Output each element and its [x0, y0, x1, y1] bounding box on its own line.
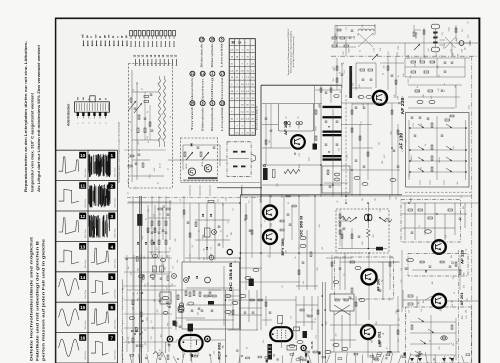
svg-text:10k: 10k — [437, 66, 439, 69]
test point circles center — [209, 230, 216, 260]
svg-text:0,1: 0,1 — [461, 195, 463, 197]
svg-text:10n: 10n — [203, 248, 205, 251]
svg-text:22: 22 — [129, 175, 131, 177]
oscillogram tag 16 — [79, 334, 86, 341]
svg-text:C7: C7 — [212, 260, 214, 262]
svg-text:1k: 1k — [425, 144, 427, 146]
sync block box top edge — [240, 194, 402, 196]
svg-text:2,2k: 2,2k — [354, 36, 356, 39]
svg-text:0,1: 0,1 — [421, 309, 423, 311]
svg-text:470: 470 — [145, 343, 147, 346]
zigzag resistor — [284, 169, 300, 173]
coil crossover wires — [358, 33, 373, 47]
svg-text:47n: 47n — [418, 301, 420, 304]
svg-text:5n: 5n — [267, 255, 269, 257]
wire junction dots — [225, 164, 370, 311]
transistor T3 (AF 106) — [291, 135, 305, 149]
svg-text:68: 68 — [337, 201, 339, 203]
svg-text:22k: 22k — [222, 203, 224, 206]
svg-text:50Hz 2Vss: 50Hz 2Vss — [85, 229, 87, 238]
svg-text:C9: C9 — [164, 134, 166, 136]
svg-text:—: — — [244, 42, 247, 45]
svg-text:680: 680 — [154, 269, 156, 272]
svg-text:47k: 47k — [462, 29, 464, 32]
svg-text:1k: 1k — [133, 89, 135, 91]
svg-text:perten müssen auf jeden Fall u: perten müssen auf jeden Fall und in glei… — [42, 239, 46, 361]
svg-text:4,7k: 4,7k — [359, 84, 361, 87]
svg-text:BA114: BA114 — [410, 155, 413, 160]
svg-text:4,7k: 4,7k — [438, 88, 440, 91]
svg-text:0,5: 0,5 — [148, 230, 150, 233]
svg-text:C45: C45 — [319, 224, 321, 227]
svg-text:4,7k: 4,7k — [144, 284, 146, 287]
svg-text:AF106: AF106 — [201, 161, 204, 166]
svg-text:C61: C61 — [344, 70, 346, 73]
svg-text:15: 15 — [200, 38, 204, 42]
svg-text:17: 17 — [220, 72, 224, 76]
svg-text:680: 680 — [144, 256, 146, 259]
svg-text:+12V: +12V — [154, 167, 156, 172]
svg-text:L2: L2 — [158, 83, 160, 85]
top-right extra wiring — [332, 25, 457, 108]
test point 17 with label — [220, 71, 225, 102]
test point 14 with label — [200, 71, 205, 102]
svg-text:R97: R97 — [370, 338, 372, 341]
IF transformer core bar 5 — [323, 155, 342, 157]
svg-text:0,5: 0,5 — [218, 199, 220, 202]
test point 21 with label — [190, 71, 195, 102]
additional junction dots — [240, 147, 438, 353]
svg-text:0,22: 0,22 — [299, 153, 301, 157]
ratio detector diodes — [338, 203, 392, 250]
svg-text:100: 100 — [463, 206, 465, 209]
tuner tiny labels (texture) — [128, 82, 172, 194]
svg-text:1k: 1k — [315, 318, 317, 320]
svg-text:2k2: 2k2 — [335, 34, 337, 37]
svg-text:C311: C311 — [449, 27, 451, 31]
tuner RF circuit components — [128, 70, 164, 182]
svg-text:47n: 47n — [439, 308, 441, 311]
svg-text:C96: C96 — [373, 234, 375, 237]
svg-text:2k2: 2k2 — [142, 331, 144, 334]
wire tuner-out — [168, 159, 228, 161]
svg-text:rt: rt — [104, 98, 107, 100]
AGC upper dash-dot box — [401, 200, 461, 243]
svg-text:5: 5 — [111, 275, 114, 280]
oscillogram tag 14 — [79, 273, 86, 280]
svg-text:5n: 5n — [417, 90, 419, 92]
svg-text:220: 220 — [353, 83, 355, 86]
svg-text:50Hz 2Vss: 50Hz 2Vss — [85, 168, 87, 177]
svg-text:1k: 1k — [417, 86, 419, 88]
black component right of AF106 — [313, 144, 318, 150]
oscillogram tag 5 — [108, 273, 115, 280]
svg-text:C88: C88 — [452, 53, 454, 56]
svg-text:1n: 1n — [146, 218, 148, 220]
svg-text:7: 7 — [111, 336, 114, 341]
svg-text:4,7k: 4,7k — [307, 314, 309, 317]
svg-text:11: 11 — [80, 184, 85, 189]
svg-text:PL 36: PL 36 — [310, 341, 314, 348]
svg-text:AF 200: AF 200 — [377, 278, 381, 291]
capacitor pair C9 — [296, 116, 302, 124]
oscillogram tag 2 — [108, 182, 115, 189]
left center lower parts — [150, 266, 188, 286]
svg-text:AF106: AF106 — [185, 163, 188, 168]
border frame top — [55, 17, 480, 19]
svg-text:Als Lötgut darf nur Lötzinn mi: Als Lötgut darf nur Lötzinn mit mindeste… — [37, 45, 41, 192]
svg-text:5n: 5n — [444, 83, 446, 85]
test point 13 with label — [220, 101, 225, 132]
svg-text:4,7: 4,7 — [160, 163, 162, 165]
svg-text:5n6: 5n6 — [455, 85, 457, 88]
svg-text:R12: R12 — [241, 297, 243, 300]
oscillogram tag 4 — [108, 243, 115, 250]
sound IF box — [322, 166, 350, 193]
svg-text:5n: 5n — [298, 247, 300, 249]
svg-text:15kHz 8Vss: 15kHz 8Vss — [115, 320, 117, 330]
svg-text:680: 680 — [389, 297, 391, 300]
svg-text:Spannungsangaben und Oszillogr: Spannungsangaben und Oszillogramme gelte… — [118, 121, 121, 183]
svg-text:1k: 1k — [274, 219, 276, 221]
svg-text:13: 13 — [220, 101, 224, 105]
svg-text:C45: C45 — [190, 326, 192, 329]
test point 5 with label — [219, 37, 224, 68]
svg-text:1n: 1n — [170, 116, 172, 118]
oscillator stage components — [176, 290, 221, 330]
svg-text:1n: 1n — [142, 88, 144, 90]
test point 8 with label — [200, 101, 205, 132]
svg-text:R71: R71 — [142, 344, 144, 347]
svg-text:br: br — [112, 35, 115, 38]
svg-text:R216: R216 — [299, 124, 301, 128]
svg-text:18: 18 — [210, 38, 214, 42]
svg-text:5n6: 5n6 — [406, 139, 408, 142]
svg-text:R216: R216 — [390, 195, 392, 199]
svg-text:680: 680 — [466, 310, 468, 313]
test point 9 with label — [210, 101, 215, 132]
video detector diode rows — [410, 315, 456, 363]
svg-text:C41: C41 — [413, 123, 415, 126]
svg-text:C45: C45 — [406, 315, 408, 318]
svg-text:10k: 10k — [374, 198, 376, 201]
svg-text:10k: 10k — [435, 33, 437, 36]
IF transformer core bar 4 — [323, 134, 342, 136]
svg-text:0,5: 0,5 — [192, 245, 194, 248]
svg-text:15: 15 — [80, 305, 86, 310]
AF201 stage wiring — [305, 311, 400, 358]
svg-text:DC 354 B: DC 354 B — [229, 262, 233, 291]
oscillogram 6 waveform — [91, 309, 109, 325]
bus wire vertical B — [239, 258, 241, 363]
svg-text:1k: 1k — [295, 257, 297, 259]
svg-text:4,7k: 4,7k — [361, 121, 363, 124]
svg-text:R71: R71 — [169, 302, 171, 305]
IF block left edge — [260, 85, 262, 203]
note text (Spannungen gemessen) — [287, 28, 295, 75]
electrolytic capacitor C (dark) — [137, 214, 142, 226]
svg-text:PCF 802: PCF 802 — [217, 342, 222, 360]
svg-text:50Hz 2Vss: 50Hz 2Vss — [85, 351, 87, 360]
svg-text:12: 12 — [80, 214, 86, 219]
svg-text:Bildfang: Bildfang — [212, 76, 214, 102]
svg-text:220: 220 — [153, 214, 155, 217]
oscillogram 5 waveform — [91, 280, 109, 294]
svg-text:0,5: 0,5 — [210, 247, 212, 250]
svg-text:20: 20 — [191, 101, 195, 105]
svg-text:68: 68 — [282, 286, 284, 288]
svg-text:bl: bl — [99, 35, 102, 38]
svg-text:C35: C35 — [128, 337, 130, 340]
svg-text:1,8k: 1,8k — [160, 349, 162, 352]
right column extra labels — [401, 250, 469, 313]
svg-text:47k: 47k — [458, 54, 460, 57]
svg-text:4,7k: 4,7k — [431, 96, 433, 99]
svg-text:temperatur von max. 310° C aus: temperatur von max. 310° C ausgerüstet w… — [31, 93, 35, 192]
oscillogram 12 waveform — [59, 218, 79, 234]
svg-text:C7: C7 — [228, 221, 230, 223]
svg-text:R97: R97 — [425, 55, 427, 58]
border frame right — [478, 18, 480, 363]
svg-text:22k: 22k — [457, 182, 459, 185]
svg-text:ab KW: ab KW — [128, 179, 130, 185]
transistor T10 (BFY39) upper — [263, 206, 277, 220]
IF transformer core bar 1 — [323, 106, 342, 108]
svg-text:2,2k: 2,2k — [362, 24, 364, 27]
svg-text:1,8k: 1,8k — [225, 198, 227, 201]
svg-text:4,7p: 4,7p — [453, 146, 455, 149]
svg-text:R216: R216 — [299, 164, 301, 168]
svg-text:16: 16 — [80, 336, 86, 341]
IF strip extra wiring — [262, 95, 472, 203]
svg-text:R12: R12 — [462, 316, 464, 319]
svg-text:680: 680 — [164, 267, 166, 270]
oscillogram 15 waveform — [59, 309, 79, 326]
voltage measurement table — [229, 39, 255, 136]
bus wire double C — [321, 282, 323, 363]
test point 15 with label — [199, 37, 204, 68]
IF transformer core bar 3 — [323, 131, 342, 133]
svg-text:ohne Signal (Geräuschspannung): ohne Signal (Geräuschspannung) — [292, 36, 295, 67]
IF strip wiring — [262, 85, 342, 197]
svg-text:10n: 10n — [195, 353, 197, 356]
svg-text:10k: 10k — [421, 167, 423, 170]
svg-text:C7: C7 — [221, 230, 223, 232]
bottom band ref labels (texture) — [133, 292, 464, 356]
oscillogram 4 waveform — [91, 248, 109, 264]
audio area extra wires — [326, 255, 398, 290]
svg-text:2k2: 2k2 — [128, 266, 130, 269]
svg-text:C311: C311 — [282, 194, 284, 198]
svg-text:100: 100 — [420, 59, 422, 62]
svg-text:21: 21 — [191, 72, 195, 76]
oscillogram 16 waveform — [59, 339, 79, 356]
svg-text:10k: 10k — [379, 142, 381, 145]
svg-text:1k: 1k — [419, 225, 421, 227]
transistor T8 (AF 201) — [361, 325, 375, 339]
oscillogram tag 11 — [79, 182, 86, 189]
black component tag — [249, 279, 254, 286]
IF transformer core bar 2 — [323, 116, 342, 118]
svg-text:10n: 10n — [270, 224, 272, 227]
svg-text:50Hz 2Vss: 50Hz 2Vss — [85, 199, 87, 208]
svg-text:0,1: 0,1 — [429, 340, 431, 343]
svg-text:1n: 1n — [392, 256, 394, 258]
svg-text:Linearität: Linearität — [221, 106, 224, 131]
svg-text:10k: 10k — [362, 198, 364, 201]
output stage components — [296, 296, 318, 348]
svg-text:bl: bl — [100, 98, 102, 100]
svg-text:1n: 1n — [158, 182, 160, 184]
svg-text:C9: C9 — [161, 138, 163, 140]
svg-text:680: 680 — [129, 341, 131, 344]
dashed frame below UHF box — [405, 191, 472, 193]
UHF tuner box — [406, 113, 470, 188]
oscillogram tag 10 — [79, 152, 86, 159]
IF transformer core bar 6 — [323, 158, 342, 160]
svg-text:0,5: 0,5 — [173, 266, 175, 269]
svg-text:2k2: 2k2 — [161, 334, 163, 337]
svg-text:2,2k: 2,2k — [403, 74, 405, 77]
svg-text:10n: 10n — [423, 300, 425, 303]
svg-text:5p: 5p — [147, 111, 149, 113]
oscillogram 14 waveform — [59, 278, 79, 295]
svg-text:5n6: 5n6 — [271, 195, 273, 198]
left-bottom components — [132, 292, 171, 363]
dash-dot vertical right — [471, 56, 473, 363]
svg-text:10n: 10n — [291, 316, 293, 319]
svg-text:Fabrikate und mit unbedingt de: Fabrikate und mit unbedingt der gleichen… — [36, 240, 40, 361]
svg-text:5n: 5n — [444, 90, 446, 92]
svg-text:0,1: 0,1 — [260, 199, 262, 201]
dash-dot vertical x458 — [458, 250, 460, 363]
svg-text:8: 8 — [202, 101, 204, 105]
svg-text:1: 1 — [111, 153, 114, 158]
bus wire vertical D — [260, 203, 262, 330]
svg-text:1n: 1n — [312, 309, 314, 311]
bottom diodes — [410, 358, 454, 362]
svg-text:Bildendstufe: Bildendstufe — [202, 106, 205, 131]
test point 2 with label — [210, 71, 215, 102]
center stage wiring — [185, 203, 240, 260]
svg-text:C45: C45 — [204, 257, 206, 260]
tuner oscillator transistors — [183, 144, 262, 195]
blocking oscillator box — [330, 294, 354, 315]
oscillogram 7 waveform — [91, 341, 109, 355]
svg-text:3: 3 — [111, 214, 114, 219]
svg-text:C9: C9 — [162, 113, 164, 115]
svg-text:1n: 1n — [359, 50, 361, 52]
svg-text:C311: C311 — [347, 154, 349, 158]
bottom band extra wiring — [176, 296, 399, 352]
svg-text:10n: 10n — [451, 255, 453, 258]
svg-text:4,7k: 4,7k — [315, 335, 317, 338]
far-right bias resistors — [403, 290, 432, 308]
svg-text:2: 2 — [212, 72, 214, 76]
transistor T11 (BFY39) lower — [263, 230, 277, 244]
AGC network resistors — [405, 58, 470, 108]
wire y252 to AF300 — [336, 252, 362, 254]
svg-text:BA114: BA114 — [438, 157, 441, 162]
svg-text:18: 18 — [238, 41, 242, 45]
border frame left — [55, 18, 57, 363]
svg-text:AF 201: AF 201 — [460, 292, 464, 305]
audio stage dash-dot box — [335, 257, 394, 299]
left-mid components — [137, 208, 170, 253]
bottom edge extra parts — [191, 350, 423, 363]
svg-text:6,8k: 6,8k — [362, 241, 364, 244]
svg-text:R97: R97 — [439, 346, 441, 349]
svg-text:L2: L2 — [137, 141, 139, 143]
svg-text:R97: R97 — [295, 152, 297, 155]
svg-text:0,1: 0,1 — [189, 254, 191, 257]
svg-text:Adernstecker: Adernstecker — [66, 103, 70, 126]
AF106 stage box — [278, 103, 313, 131]
svg-text:0,5: 0,5 — [151, 226, 153, 229]
svg-text:0,1: 0,1 — [248, 201, 250, 204]
dash-dot separator (top) — [331, 55, 477, 57]
svg-text:R4: R4 — [135, 187, 137, 189]
oscillogram tag 3 — [108, 213, 115, 220]
svg-text:1,8k: 1,8k — [334, 68, 336, 71]
svg-text:6: 6 — [111, 305, 114, 310]
svg-text:1,8k: 1,8k — [338, 148, 340, 151]
svg-text:40: 40 — [130, 121, 132, 123]
svg-text:47k: 47k — [439, 74, 441, 77]
svg-text:C88: C88 — [397, 52, 399, 55]
UHF tuner diode rows — [409, 116, 467, 180]
svg-text:47n: 47n — [163, 263, 165, 266]
svg-text:R12: R12 — [317, 267, 319, 270]
svg-text:330: 330 — [423, 94, 425, 97]
svg-text:330: 330 — [414, 64, 416, 67]
svg-text:0,22: 0,22 — [384, 155, 386, 159]
svg-text:R216: R216 — [348, 48, 350, 52]
svg-text:10n: 10n — [177, 260, 179, 263]
transistor T9 (AF 201) — [432, 294, 446, 308]
svg-text:0,1: 0,1 — [151, 320, 153, 323]
junction test point — [227, 249, 232, 254]
transistor T1 (AF 239) — [373, 91, 387, 105]
oscillogram tag 6 — [108, 304, 115, 311]
left-center dense column — [122, 255, 172, 352]
keyed AGC components — [412, 261, 462, 272]
svg-text:22k: 22k — [398, 318, 400, 321]
svg-text:R97: R97 — [457, 38, 459, 41]
bus wire left segment — [127, 197, 261, 199]
oscillogram 1 waveform (dense) — [89, 154, 110, 177]
test point 20 with label — [190, 101, 195, 132]
svg-text:2,2k: 2,2k — [148, 209, 150, 212]
junction ring — [264, 165, 266, 167]
svg-text:330: 330 — [175, 239, 177, 242]
ratio detector left column — [339, 209, 345, 246]
oscillogram 3 waveform (dense) — [89, 215, 109, 238]
svg-text:AF 126: AF 126 — [461, 250, 465, 264]
svg-text:0,22: 0,22 — [388, 51, 390, 55]
center horizontal wire y253 — [240, 252, 336, 254]
wire connector (Adernstecker symbol) — [75, 96, 110, 124]
svg-text:1,8k: 1,8k — [394, 95, 396, 98]
svg-text:1n: 1n — [398, 75, 400, 77]
svg-text:C311: C311 — [408, 79, 410, 83]
left-mid wiring — [128, 196, 172, 290]
svg-text:0,5: 0,5 — [235, 260, 237, 263]
svg-text:100µ: 100µ — [142, 236, 144, 240]
tube V2 (pentode) — [268, 316, 307, 360]
keyed AGC dash-dot box — [408, 254, 468, 277]
svg-text:C88: C88 — [461, 49, 463, 52]
